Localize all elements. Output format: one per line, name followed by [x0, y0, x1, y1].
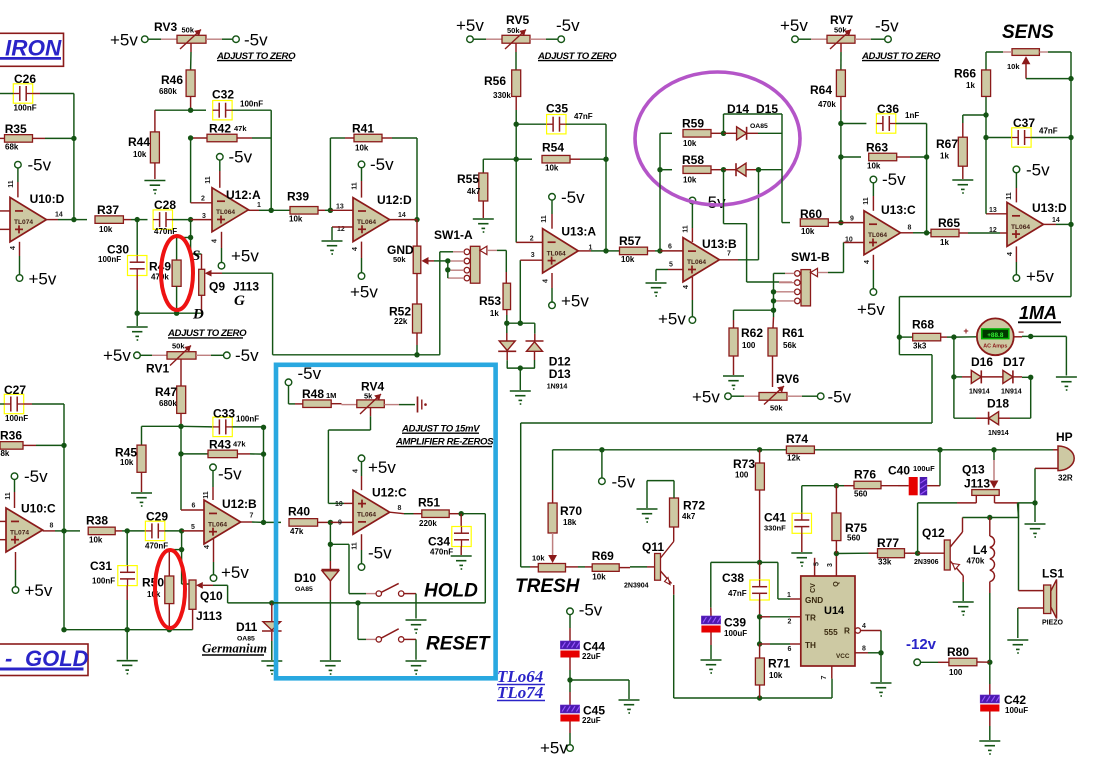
svg-text:+5v: +5v: [221, 563, 249, 582]
svg-text:D11: D11: [236, 620, 258, 634]
svg-text:+5v: +5v: [561, 292, 589, 311]
svg-text:TL074: TL074: [14, 219, 33, 226]
svg-text:-5v: -5v: [298, 364, 322, 383]
svg-text:+5v: +5v: [857, 300, 885, 319]
svg-text:R: R: [844, 627, 850, 636]
svg-text:10k: 10k: [89, 536, 103, 545]
svg-text:+5v: +5v: [368, 458, 396, 477]
svg-text:4: 4: [352, 247, 359, 251]
svg-text:4k7: 4k7: [467, 187, 481, 196]
svg-text:14: 14: [398, 212, 406, 219]
svg-text:8: 8: [862, 646, 866, 653]
svg-text:1: 1: [257, 202, 261, 209]
svg-text:100: 100: [735, 471, 749, 480]
svg-text:560: 560: [854, 490, 868, 499]
svg-text:5: 5: [191, 524, 195, 531]
svg-text:50k: 50k: [770, 404, 783, 413]
svg-text:47k: 47k: [234, 124, 247, 133]
svg-text:PIEZO: PIEZO: [1042, 620, 1064, 627]
svg-text:10k: 10k: [99, 225, 113, 234]
svg-text:11: 11: [352, 182, 359, 190]
svg-text:100: 100: [949, 668, 963, 677]
svg-text:AC Amps: AC Amps: [983, 344, 1007, 350]
svg-text:TR: TR: [805, 614, 816, 623]
svg-text:R40: R40: [288, 505, 310, 519]
svg-text:R38: R38: [86, 514, 108, 528]
svg-text:10k: 10k: [683, 175, 697, 184]
svg-text:-5v: -5v: [1026, 161, 1050, 180]
svg-text:32R: 32R: [1058, 474, 1073, 483]
svg-text:1: 1: [787, 592, 791, 599]
svg-text:R47: R47: [155, 385, 177, 399]
svg-text:R60: R60: [800, 207, 822, 221]
svg-text:+5v: +5v: [29, 270, 57, 289]
svg-text:C29: C29: [146, 510, 168, 524]
svg-text:+5v: +5v: [1026, 267, 1054, 286]
svg-text:50k: 50k: [172, 342, 185, 351]
svg-text:470k: 470k: [818, 100, 836, 109]
svg-text:+5v: +5v: [780, 16, 808, 35]
svg-text:-5v: -5v: [229, 148, 253, 167]
svg-text:C26: C26: [14, 72, 36, 86]
svg-text:Q13: Q13: [962, 463, 985, 477]
svg-text:R64: R64: [810, 83, 832, 97]
svg-text:10k: 10k: [867, 162, 881, 171]
svg-text:+5v: +5v: [350, 283, 378, 302]
svg-text:11: 11: [541, 215, 548, 223]
svg-text:R66: R66: [954, 67, 976, 81]
svg-text:330nF: 330nF: [764, 524, 786, 533]
svg-text:9: 9: [338, 520, 342, 527]
svg-text:C34: C34: [428, 535, 450, 549]
svg-text:14: 14: [1052, 217, 1060, 224]
svg-text:Q9: Q9: [209, 280, 225, 294]
svg-text:D18: D18: [987, 397, 1009, 411]
svg-text:TRESH: TRESH: [515, 576, 581, 597]
svg-text:13: 13: [989, 207, 997, 214]
svg-text:C27: C27: [4, 383, 26, 397]
svg-text:TLo74: TLo74: [497, 683, 543, 702]
svg-text:GND: GND: [805, 596, 823, 605]
svg-text:RV1: RV1: [146, 362, 169, 376]
svg-text:R57: R57: [619, 234, 641, 248]
svg-text:R41: R41: [352, 121, 374, 135]
svg-text:220k: 220k: [419, 519, 437, 528]
svg-text:4: 4: [862, 623, 866, 630]
svg-text:+88.8: +88.8: [987, 332, 1004, 339]
svg-text:680k: 680k: [159, 87, 177, 96]
svg-text:11: 11: [5, 492, 12, 500]
svg-text:TL064: TL064: [1011, 224, 1030, 231]
svg-text:5: 5: [669, 262, 673, 269]
svg-text:470k: 470k: [967, 557, 985, 566]
svg-text:LS1: LS1: [1042, 567, 1064, 581]
svg-text:10k: 10k: [355, 144, 369, 153]
svg-text:Q11: Q11: [642, 540, 664, 554]
svg-text:50k: 50k: [182, 26, 195, 35]
svg-text:TL064: TL064: [547, 250, 566, 257]
svg-text:GOLD: GOLD: [25, 646, 89, 671]
svg-text:Q: Q: [833, 581, 840, 587]
svg-text:10k: 10k: [120, 458, 134, 467]
svg-text:10k: 10k: [289, 215, 303, 224]
svg-text:SENS: SENS: [1002, 22, 1054, 43]
svg-text:R56: R56: [484, 74, 506, 88]
svg-text:470nF: 470nF: [145, 542, 168, 551]
svg-text:3: 3: [827, 563, 834, 567]
svg-text:-5v: -5v: [28, 156, 52, 175]
svg-text:7: 7: [727, 251, 731, 258]
svg-text:U10:C: U10:C: [21, 502, 56, 516]
svg-text:1N914: 1N914: [1001, 389, 1022, 396]
svg-text:1N914: 1N914: [969, 389, 990, 396]
svg-text:-5v: -5v: [235, 346, 259, 365]
svg-text:OA85: OA85: [750, 123, 768, 130]
svg-text:U13:B: U13:B: [702, 237, 737, 251]
svg-text:7: 7: [250, 513, 254, 520]
svg-text:18k: 18k: [563, 518, 577, 527]
svg-text:D10: D10: [294, 571, 316, 585]
svg-text:560: 560: [847, 534, 861, 543]
svg-text:C39: C39: [724, 616, 746, 630]
svg-text:1k: 1k: [940, 238, 949, 247]
svg-text:4: 4: [1007, 252, 1014, 256]
svg-text:11: 11: [203, 491, 210, 499]
svg-text:C31: C31: [90, 559, 112, 573]
svg-text:2: 2: [201, 196, 205, 203]
svg-text:22k: 22k: [394, 317, 408, 326]
svg-text:U13:A: U13:A: [561, 224, 596, 238]
svg-text:D13: D13: [549, 367, 571, 381]
svg-text:+5v: +5v: [103, 346, 131, 365]
svg-text:D: D: [192, 307, 204, 323]
svg-text:R76: R76: [854, 468, 876, 482]
svg-text:100nF: 100nF: [92, 577, 115, 586]
svg-text:4: 4: [543, 279, 550, 283]
svg-text:-: -: [5, 646, 12, 671]
svg-text:8: 8: [398, 505, 402, 512]
svg-text:100nF: 100nF: [240, 100, 263, 109]
svg-text:4: 4: [864, 260, 871, 264]
svg-text:+5v: +5v: [231, 247, 259, 266]
svg-text:8: 8: [908, 225, 912, 232]
svg-text:U12:A: U12:A: [226, 188, 261, 202]
svg-text:R74: R74: [786, 432, 808, 446]
svg-text:2: 2: [530, 235, 534, 242]
svg-text:10k: 10k: [801, 227, 815, 236]
svg-text:-5v: -5v: [882, 170, 906, 189]
svg-text:-5v: -5v: [612, 473, 636, 492]
svg-text:+5v: +5v: [25, 581, 53, 600]
svg-text:RV6: RV6: [776, 372, 799, 386]
svg-text:47nF: 47nF: [1039, 127, 1058, 136]
svg-text:-5v: -5v: [370, 155, 394, 174]
svg-text:R65: R65: [938, 216, 960, 230]
svg-text:R46: R46: [161, 73, 183, 87]
svg-text:12k: 12k: [787, 454, 801, 463]
svg-text:4: 4: [10, 246, 17, 250]
svg-text:11: 11: [8, 180, 15, 188]
svg-text:RV5: RV5: [506, 13, 529, 27]
svg-text:100nF: 100nF: [236, 415, 259, 424]
svg-text:10k: 10k: [545, 164, 559, 173]
svg-text:TL064: TL064: [208, 521, 227, 528]
svg-text:R54: R54: [542, 141, 564, 155]
svg-text:J113: J113: [964, 477, 990, 491]
svg-text:R67: R67: [936, 137, 958, 151]
svg-text:OA85: OA85: [295, 586, 313, 593]
svg-text:6: 6: [192, 503, 196, 510]
svg-text:5k: 5k: [364, 391, 373, 400]
svg-text:2N3906: 2N3906: [914, 559, 939, 566]
svg-text:22uF: 22uF: [582, 652, 601, 661]
svg-text:R61: R61: [782, 326, 804, 340]
svg-text:470nF: 470nF: [430, 548, 453, 557]
svg-text:-5v: -5v: [24, 467, 48, 486]
svg-text:10: 10: [335, 501, 343, 508]
svg-text:-5v: -5v: [556, 16, 580, 35]
svg-text:+5v: +5v: [692, 388, 720, 407]
svg-text:R80: R80: [947, 645, 969, 659]
svg-text:R43: R43: [209, 437, 231, 451]
svg-text:U10:D: U10:D: [30, 192, 65, 206]
svg-text:22uF: 22uF: [582, 716, 601, 725]
svg-text:R44: R44: [128, 135, 150, 149]
svg-text:6: 6: [668, 244, 672, 251]
svg-text:1N914: 1N914: [988, 430, 1009, 437]
svg-text:D16: D16: [971, 355, 993, 369]
svg-text:RESET: RESET: [426, 634, 491, 655]
svg-text:680k: 680k: [159, 399, 177, 408]
svg-text:R37: R37: [97, 203, 119, 217]
svg-text:+5v: +5v: [658, 310, 686, 329]
svg-text:10k: 10k: [592, 573, 606, 582]
svg-text:10k: 10k: [1007, 62, 1020, 71]
svg-text:C37: C37: [1013, 116, 1035, 130]
svg-text:-5v: -5v: [244, 30, 268, 49]
svg-text:R51: R51: [418, 496, 440, 510]
svg-text:C35: C35: [546, 102, 568, 116]
svg-text:C40: C40: [888, 464, 910, 478]
svg-text:10k: 10k: [683, 139, 697, 148]
svg-text:Q12: Q12: [922, 526, 945, 540]
svg-text:1nF: 1nF: [905, 111, 919, 120]
svg-text:68k: 68k: [0, 449, 10, 458]
svg-text:C32: C32: [212, 88, 234, 102]
svg-text:J113: J113: [196, 609, 222, 623]
svg-text:2: 2: [788, 619, 792, 626]
svg-text:C41: C41: [764, 511, 786, 525]
svg-text:10k: 10k: [532, 554, 545, 563]
svg-text:R42: R42: [209, 122, 231, 136]
svg-text:4: 4: [204, 545, 211, 549]
svg-text:TL064: TL064: [357, 219, 376, 226]
svg-text:R73: R73: [733, 457, 755, 471]
svg-text:1k: 1k: [940, 152, 949, 161]
svg-text:R36: R36: [0, 429, 22, 443]
svg-text:G: G: [234, 293, 245, 309]
svg-text:U13:D: U13:D: [1032, 201, 1067, 215]
svg-text:R70: R70: [560, 504, 582, 518]
svg-text:47nF: 47nF: [574, 112, 593, 121]
svg-text:10k: 10k: [769, 671, 783, 680]
svg-text:10k: 10k: [621, 255, 635, 264]
svg-text:TH: TH: [805, 641, 816, 650]
svg-text:50k: 50k: [834, 26, 847, 35]
svg-text:6: 6: [788, 646, 792, 653]
svg-text:R62: R62: [741, 326, 763, 340]
svg-text:3: 3: [531, 252, 535, 259]
svg-text:-5v: -5v: [218, 465, 242, 484]
svg-text:HP: HP: [1056, 430, 1073, 444]
svg-text:TL064: TL064: [216, 209, 235, 216]
svg-text:47k: 47k: [233, 440, 246, 449]
svg-text:50k: 50k: [393, 255, 406, 264]
svg-text:100nF: 100nF: [14, 104, 37, 113]
svg-text:TL064: TL064: [357, 512, 376, 519]
svg-text:100uF: 100uF: [724, 629, 747, 638]
svg-text:R55: R55: [457, 172, 479, 186]
svg-text:100: 100: [742, 341, 756, 350]
svg-text:-5v: -5v: [368, 544, 392, 563]
svg-text:100uF: 100uF: [1005, 706, 1028, 715]
svg-text:R53: R53: [479, 294, 501, 308]
svg-text:HOLD: HOLD: [424, 581, 478, 602]
svg-text:-5v: -5v: [702, 193, 726, 212]
svg-text:3: 3: [202, 213, 206, 220]
svg-text:4: 4: [353, 469, 360, 473]
svg-text:+: +: [963, 326, 968, 336]
svg-text:-5v: -5v: [875, 17, 899, 36]
svg-text:100uF: 100uF: [913, 464, 935, 473]
svg-text:U12:C: U12:C: [372, 486, 407, 500]
svg-text:R72: R72: [683, 499, 705, 513]
svg-text:-5v: -5v: [579, 601, 603, 620]
svg-text:Q10: Q10: [200, 589, 223, 603]
svg-text:3k3: 3k3: [913, 342, 927, 351]
svg-text:1MA: 1MA: [1019, 303, 1057, 323]
svg-text:14: 14: [55, 212, 63, 219]
svg-text:C36: C36: [877, 102, 899, 116]
svg-text:TL064: TL064: [687, 259, 706, 266]
svg-text:IRON: IRON: [5, 36, 62, 61]
svg-text:R69: R69: [592, 549, 614, 563]
svg-text:+5v: +5v: [456, 16, 484, 35]
svg-text:33k: 33k: [878, 558, 892, 567]
svg-text:1k: 1k: [966, 81, 975, 90]
svg-text:+5v: +5v: [110, 30, 138, 49]
svg-text:100nF: 100nF: [5, 414, 28, 423]
svg-text:7: 7: [821, 675, 828, 679]
svg-text:R71: R71: [768, 657, 790, 671]
svg-text:11: 11: [863, 197, 870, 205]
svg-text:U12:D: U12:D: [377, 193, 412, 207]
svg-text:+5v: +5v: [540, 739, 568, 757]
svg-text:11: 11: [205, 176, 212, 184]
svg-text:TL064: TL064: [868, 232, 887, 239]
svg-text:R59: R59: [682, 117, 704, 131]
svg-text:13: 13: [336, 204, 344, 211]
svg-text:8: 8: [50, 523, 54, 530]
svg-text:R35: R35: [5, 122, 27, 136]
svg-text:-5v: -5v: [828, 388, 852, 407]
svg-text:68k: 68k: [5, 143, 19, 152]
svg-text:R68: R68: [912, 317, 934, 331]
svg-text:D17: D17: [1003, 355, 1025, 369]
svg-text:4k7: 4k7: [682, 512, 696, 521]
svg-text:CV: CV: [810, 583, 817, 593]
svg-text:U12:B: U12:B: [222, 497, 257, 511]
svg-text:5: 5: [814, 562, 821, 566]
svg-text:555: 555: [824, 628, 838, 637]
svg-text:9: 9: [850, 216, 854, 223]
svg-text:R58: R58: [682, 153, 704, 167]
svg-text:1N914: 1N914: [547, 384, 568, 391]
svg-text:Germanium: Germanium: [202, 641, 267, 656]
svg-text:50k: 50k: [507, 26, 520, 35]
svg-text:TL074: TL074: [10, 529, 29, 536]
svg-text:-5v: -5v: [561, 188, 585, 207]
svg-text:C38: C38: [722, 571, 744, 585]
svg-text:L4: L4: [973, 543, 987, 557]
svg-text:4: 4: [212, 239, 219, 243]
svg-text:C28: C28: [154, 198, 176, 212]
svg-text:R63: R63: [866, 141, 888, 155]
svg-text:1M: 1M: [326, 391, 336, 400]
svg-text:2N3904: 2N3904: [624, 583, 649, 590]
svg-text:U13:C: U13:C: [881, 203, 916, 217]
svg-text:U14: U14: [824, 605, 845, 617]
svg-text:R39: R39: [287, 190, 309, 204]
svg-text:10k: 10k: [133, 150, 147, 159]
svg-text:SW1-A: SW1-A: [434, 228, 473, 242]
svg-text:R77: R77: [877, 536, 899, 550]
svg-text:11: 11: [683, 225, 690, 233]
svg-text:100nF: 100nF: [98, 255, 121, 264]
svg-text:C33: C33: [213, 407, 235, 421]
svg-text:11: 11: [1006, 192, 1013, 200]
svg-text:12: 12: [989, 227, 997, 234]
svg-text:C42: C42: [1004, 693, 1026, 707]
svg-text:J113: J113: [233, 280, 259, 294]
svg-text:-12v: -12v: [906, 636, 937, 653]
svg-text:47k: 47k: [290, 527, 304, 536]
svg-text:R48: R48: [302, 387, 324, 401]
svg-text:RV3: RV3: [154, 20, 177, 34]
svg-text:SW1-B: SW1-B: [791, 250, 830, 264]
svg-text:330k: 330k: [493, 91, 511, 100]
svg-text:47nF: 47nF: [728, 589, 747, 598]
svg-text:56k: 56k: [783, 341, 797, 350]
svg-text:11: 11: [352, 542, 359, 550]
svg-text:1k: 1k: [490, 309, 499, 318]
svg-text:4: 4: [683, 285, 690, 289]
svg-text:VCC: VCC: [836, 653, 850, 660]
